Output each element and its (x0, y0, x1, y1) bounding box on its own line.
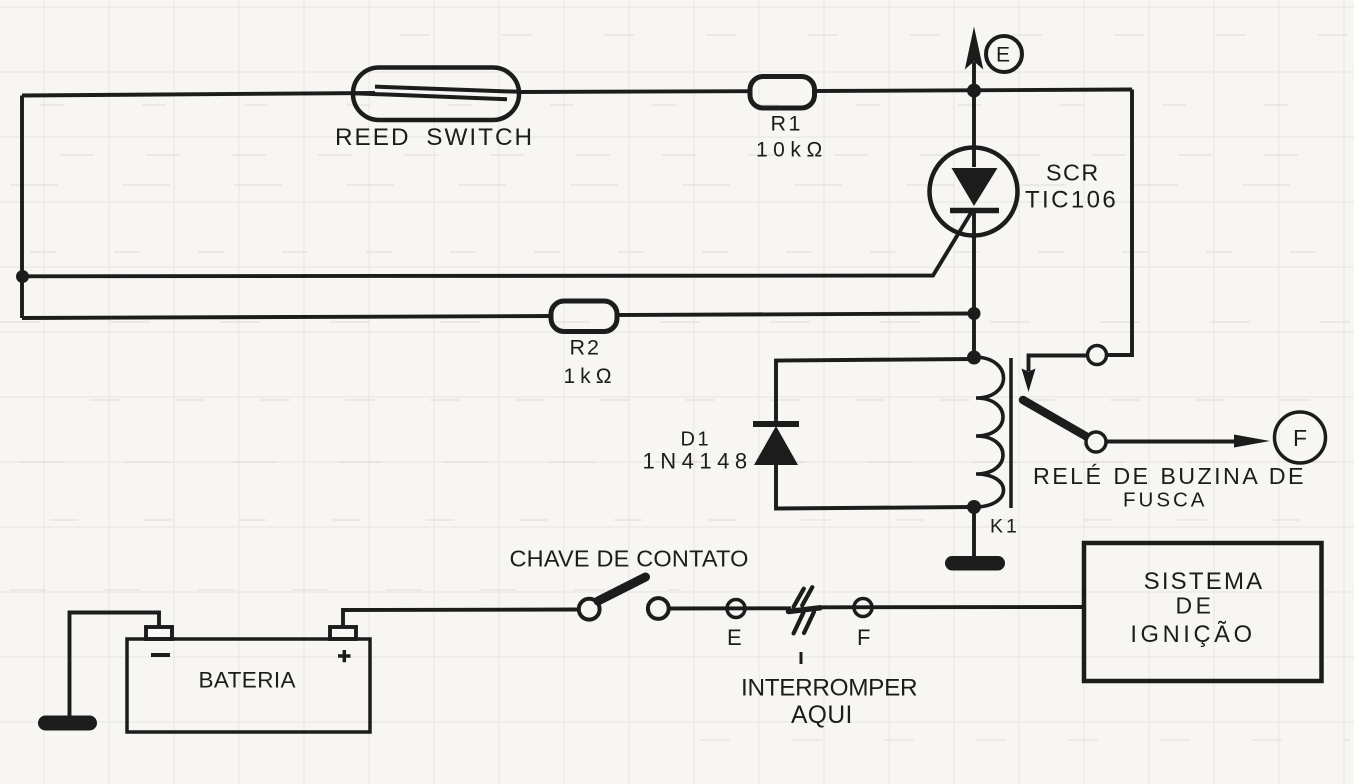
svg-text:IGNIÇÃO: IGNIÇÃO (1130, 621, 1255, 648)
ignition switch circle A (579, 599, 600, 620)
ignition system box (1084, 543, 1322, 681)
svg-text:AQUI: AQUI (791, 702, 853, 729)
battery minus sign (151, 653, 170, 657)
wire: SCR anode vertical (972, 91, 976, 167)
svg-text:D1: D1 (681, 429, 712, 451)
svg-text:BATERIA: BATERIA (199, 668, 296, 693)
SCR cathode bar (950, 208, 999, 214)
svg-text:RELÉ DE BUZINA DE: RELÉ DE BUZINA DE (1033, 463, 1306, 489)
svg-text:TIC106: TIC106 (1025, 187, 1118, 214)
connector E circle (727, 600, 745, 618)
node E arrow up (972, 62, 976, 92)
ground bar relay (945, 556, 1005, 571)
svg-text:10kΩ: 10kΩ (756, 139, 828, 162)
svg-text:E: E (727, 625, 742, 650)
wire: R2 rail right (617, 314, 974, 316)
svg-text:1N4148: 1N4148 (643, 449, 753, 474)
ground bar battery (38, 716, 97, 731)
SCR U1 circle (930, 148, 1018, 236)
reed switch contact upper (375, 87, 519, 92)
reed switch contact lower (353, 93, 507, 99)
ignition switch circle B (648, 598, 669, 619)
battery plus sign (338, 650, 351, 662)
wire: top rail mid segment (519, 89, 752, 94)
battery positive terminal (330, 627, 356, 639)
svg-text:FUSCA: FUSCA (1123, 489, 1207, 512)
battery negative terminal (146, 627, 172, 639)
junction dot gate / left rail (16, 270, 29, 283)
resistor R1 (750, 77, 815, 109)
wire: top rail right segment (814, 90, 1132, 92)
svg-text:R2: R2 (570, 336, 601, 360)
wire: battery positive lead (343, 610, 578, 628)
relay moving contact arm (1023, 400, 1089, 438)
battery box (127, 639, 370, 732)
svg-text:F: F (1293, 425, 1307, 451)
wire: relay ground lead (972, 507, 976, 558)
junction dot coil top (967, 351, 981, 365)
diode D1 triangle (754, 426, 798, 465)
diode D1 branch bottom wire (776, 464, 974, 509)
SCR triangle (952, 168, 998, 206)
junction dot R2 / SCR cathode (968, 307, 981, 320)
svg-text:SCR: SCR (1046, 160, 1100, 186)
wire: SCR cathode vertical (972, 211, 976, 359)
wire: break symbol to box (820, 605, 1084, 609)
svg-text:1kΩ: 1kΩ (564, 365, 617, 388)
tick below break (800, 652, 803, 664)
wire: contact feed (1029, 356, 1088, 372)
svg-text:E: E (996, 44, 1010, 67)
svg-text:K1: K1 (990, 516, 1020, 538)
relay fixed contact terminal circle (1088, 346, 1107, 365)
relay moving contact terminal circle (1086, 432, 1106, 452)
junction dot coil bottom (967, 500, 981, 514)
wire: right vertical rail (1107, 90, 1133, 356)
junction dot top rail / SCR (967, 84, 981, 98)
svg-text:DE: DE (1176, 593, 1215, 619)
svg-text:CHAVE DE CONTATO: CHAVE DE CONTATO (510, 546, 749, 572)
svg-text:F: F (857, 625, 870, 650)
svg-text:INTERROMPER: INTERROMPER (741, 675, 917, 702)
svg-text:R1: R1 (771, 111, 803, 135)
svg-text:REED SWITCH: REED SWITCH (335, 124, 534, 151)
svg-text:SISTEMA: SISTEMA (1144, 568, 1265, 595)
node F circle (1275, 412, 1326, 463)
node E circle (986, 36, 1022, 72)
diode D1 cathode bar (753, 421, 799, 427)
wire: R2 rail left (22, 316, 551, 318)
resistor R2 (551, 301, 617, 332)
wire: switch to break symbol (669, 606, 791, 610)
diode D1 branch top wire (776, 359, 974, 425)
SCR gate wire (22, 212, 972, 276)
wire to F with arrow (1106, 440, 1236, 444)
wire: battery negative lead (70, 613, 160, 717)
wire: left vertical rail (20, 96, 24, 319)
wire: top rail left segment (22, 93, 375, 96)
ignition switch arm (598, 577, 646, 601)
reed switch body (353, 68, 519, 121)
relay K1 coil (974, 357, 1004, 507)
relay core line (1009, 358, 1013, 508)
contact arrow down (1022, 369, 1036, 393)
connector F circle (854, 599, 872, 617)
break symbol (interromper) (789, 587, 821, 633)
